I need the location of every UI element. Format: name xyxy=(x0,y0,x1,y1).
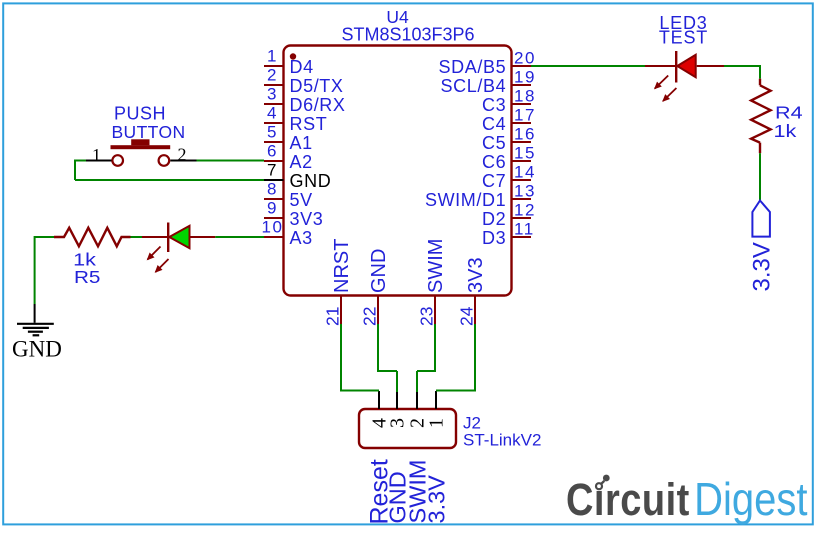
svg-text:9: 9 xyxy=(267,199,278,218)
svg-text:2: 2 xyxy=(267,66,278,85)
svg-text:10: 10 xyxy=(262,218,284,237)
svg-text:GND: GND xyxy=(368,249,390,293)
svg-text:1: 1 xyxy=(92,145,101,165)
svg-text:24: 24 xyxy=(457,306,477,326)
svg-text:13: 13 xyxy=(514,182,536,201)
svg-text:1: 1 xyxy=(267,47,278,66)
svg-text:BUTTON: BUTTON xyxy=(111,122,185,142)
svg-text:16: 16 xyxy=(514,125,536,144)
svg-text:PUSH: PUSH xyxy=(114,104,166,124)
svg-text:D6/RX: D6/RX xyxy=(290,95,346,115)
svg-text:3.3V: 3.3V xyxy=(424,475,450,524)
svg-text:7: 7 xyxy=(267,161,278,180)
svg-text:5V: 5V xyxy=(290,190,313,210)
svg-text:3V3: 3V3 xyxy=(465,257,487,293)
svg-text:11: 11 xyxy=(514,220,535,239)
svg-text:6: 6 xyxy=(267,142,278,161)
svg-text:3: 3 xyxy=(267,85,278,104)
svg-text:ST-LinkV2: ST-LinkV2 xyxy=(463,431,541,450)
svg-text:R4: R4 xyxy=(775,103,803,123)
svg-text:A1: A1 xyxy=(290,133,313,153)
svg-text:3V3: 3V3 xyxy=(290,209,324,229)
svg-text:D5/TX: D5/TX xyxy=(290,76,344,96)
svg-text:C6: C6 xyxy=(482,152,506,172)
svg-text:TEST: TEST xyxy=(659,28,708,48)
svg-text:15: 15 xyxy=(514,144,536,163)
svg-text:STM8S103F3P6: STM8S103F3P6 xyxy=(341,25,474,45)
svg-text:18: 18 xyxy=(514,87,536,106)
svg-text:Cırcuit: Cırcuit xyxy=(566,474,690,525)
svg-text:D4: D4 xyxy=(290,57,314,77)
svg-text:C7: C7 xyxy=(482,171,506,191)
svg-text:23: 23 xyxy=(417,307,437,326)
svg-text:14: 14 xyxy=(514,163,536,182)
svg-text:22: 22 xyxy=(360,307,380,326)
svg-text:1k: 1k xyxy=(774,122,797,142)
svg-text:SWIM/D1: SWIM/D1 xyxy=(425,190,506,210)
svg-text:12: 12 xyxy=(514,201,536,220)
svg-text:SCL/B4: SCL/B4 xyxy=(441,76,507,96)
svg-text:D2: D2 xyxy=(482,209,506,229)
svg-text:A2: A2 xyxy=(290,152,313,172)
svg-text:3: 3 xyxy=(387,418,409,428)
svg-text:20: 20 xyxy=(514,49,536,68)
svg-text:C3: C3 xyxy=(482,95,506,115)
svg-text:4: 4 xyxy=(267,104,278,123)
svg-text:2: 2 xyxy=(178,144,187,164)
svg-text:21: 21 xyxy=(323,307,343,326)
svg-text:C5: C5 xyxy=(482,133,506,153)
svg-text:3.3V: 3.3V xyxy=(749,242,776,291)
svg-text:GND: GND xyxy=(12,337,62,362)
svg-text:GND: GND xyxy=(290,171,332,191)
svg-text:17: 17 xyxy=(514,106,536,125)
svg-text:19: 19 xyxy=(514,68,536,87)
svg-text:C4: C4 xyxy=(482,114,506,134)
svg-text:NRST: NRST xyxy=(331,239,353,293)
svg-text:SWIM: SWIM xyxy=(425,239,447,293)
svg-text:1: 1 xyxy=(426,418,448,428)
svg-text:A3: A3 xyxy=(290,228,313,248)
svg-text:SDA/B5: SDA/B5 xyxy=(439,57,507,77)
svg-text:Digest: Digest xyxy=(694,474,807,526)
svg-text:R5: R5 xyxy=(74,267,100,287)
svg-text:D3: D3 xyxy=(482,228,506,248)
svg-text:RST: RST xyxy=(290,114,328,134)
svg-text:5: 5 xyxy=(267,123,278,142)
svg-text:8: 8 xyxy=(267,180,278,199)
